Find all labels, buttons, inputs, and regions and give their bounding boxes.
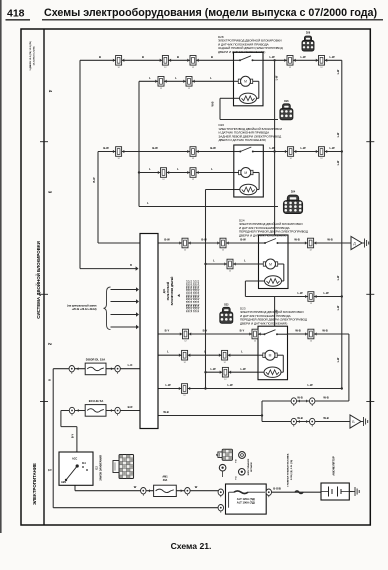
svg-text:B-W: B-W <box>210 146 216 150</box>
svg-text:L-W: L-W <box>269 55 275 59</box>
svg-text:L-W: L-W <box>337 132 340 137</box>
svg-text:АККУМУЛЯТОР: АККУМУЛЯТОР <box>332 456 336 476</box>
svg-text:L-O: L-O <box>128 363 133 367</box>
svg-text:Д41: Д41 <box>163 288 166 293</box>
svg-text:W-B: W-B <box>323 416 328 420</box>
svg-text:W-B: W-B <box>327 238 332 242</box>
svg-text:БЛОКИРОВКИ ДВЕРЕЙ: БЛОКИРОВКИ ДВЕРЕЙ <box>171 277 174 306</box>
svg-text:B-R: B-R <box>128 405 133 409</box>
svg-text:M: M <box>269 354 272 358</box>
svg-text:B-Y: B-Y <box>240 329 245 333</box>
svg-text:І13: І13 <box>96 466 99 470</box>
svg-text:W: W <box>195 485 198 489</box>
svg-text:Схема 21.: Схема 21. <box>171 541 212 551</box>
svg-text:ДВЕРИ И ДАТЧИК ПОЛОЖЕНИЯ): ДВЕРИ И ДАТЧИК ПОЛОЖЕНИЯ) <box>218 50 265 54</box>
svg-text:W-B: W-B <box>295 329 300 333</box>
svg-text:M: M <box>269 262 272 266</box>
svg-text:ALT 100A (7Д): ALT 100A (7Д) <box>237 500 255 504</box>
svg-text:+20-Ы +26-Ы +29-Ы): +20-Ы +26-Ы +29-Ы) <box>72 308 97 311</box>
svg-text:B: B <box>211 55 213 59</box>
svg-text:W-B: W-B <box>163 410 168 414</box>
svg-text:B: B <box>48 379 51 381</box>
svg-text:W-B: W-B <box>323 396 328 400</box>
svg-text:L-W: L-W <box>337 275 340 280</box>
svg-text:L-W: L-W <box>307 383 313 387</box>
svg-text:L-W: L-W <box>269 146 275 150</box>
svg-text:ГЛАВНАЯ ПЛАВКАЯ ВСТАВКА: ГЛАВНАЯ ПЛАВКАЯ ВСТАВКА <box>287 453 290 486</box>
svg-text:40A: 40A <box>163 479 168 482</box>
svg-text:L-W: L-W <box>329 55 335 59</box>
svg-text:B-Y: B-Y <box>165 329 170 333</box>
svg-text:L-W: L-W <box>337 357 340 362</box>
svg-text:3.0W (7Д), 3.0L (7Д): 3.0W (7Д), 3.0L (7Д) <box>291 460 293 481</box>
svg-text:L-W: L-W <box>240 367 246 371</box>
svg-text:B-Y: B-Y <box>72 434 75 439</box>
svg-text:ВСТАВОК: ВСТАВОК <box>250 461 253 472</box>
svg-text:D24: D24 <box>291 191 296 194</box>
svg-text:D23: D23 <box>224 304 229 306</box>
svg-text:L-W: L-W <box>300 55 306 59</box>
svg-text:B-W: B-W <box>240 238 246 242</box>
svg-text:B-W: B-W <box>103 146 109 150</box>
svg-text:ДВЕРИ И ДАТЧИК ПОЛОЖЕНИЯ): ДВЕРИ И ДАТЧИК ПОЛОЖЕНИЯ) <box>240 321 287 325</box>
svg-text:ACC: ACC <box>72 458 77 461</box>
svg-text:D26: D26 <box>284 101 289 103</box>
svg-text:W-B: W-B <box>297 416 302 420</box>
svg-text:B: B <box>142 55 144 59</box>
svg-text:ДВЕРИ И ДАТЧИК ПОЛОЖЕНИЯ): ДВЕРИ И ДАТЧИК ПОЛОЖЕНИЯ) <box>219 138 266 142</box>
svg-text:ДВЕРИ И ДАТЧИК ПОЛОЖЕНИЯ): ДВЕРИ И ДАТЧИК ПОЛОЖЕНИЯ) <box>239 233 286 237</box>
svg-text:Ч ДВЕРИ 10-2 (7В) 12-3 (7В): Ч ДВЕРИ 10-2 (7В) 12-3 (7В) <box>30 41 32 71</box>
svg-text:L-W: L-W <box>297 291 303 295</box>
svg-text:10-3(7В) 12-2(7В) 16-2(7В) 14-: 10-3(7В) 12-2(7В) 16-2(7В) 14-3 <box>197 280 200 313</box>
svg-text:W-B: W-B <box>294 238 299 242</box>
svg-text:14-3 (7В) 16-2 (7В): 14-3 (7В) 16-2 (7В) <box>33 46 36 65</box>
svg-text:418: 418 <box>7 8 25 20</box>
svg-text:ЗАМОК ЗАЖИГАНИЯ: ЗАМОК ЗАЖИГАНИЯ <box>100 455 103 481</box>
svg-text:ЭЛЕКТРОПИТАНИЕ: ЭЛЕКТРОПИТАНИЕ <box>32 463 37 505</box>
svg-text:W-B: W-B <box>212 101 215 106</box>
svg-text:Схемы электрооборудования (мод: Схемы электрооборудования (модели выпуск… <box>44 7 377 19</box>
svg-text:СИСТЕМА ДВОЙНОЙ БЛОКИРОВКИ: СИСТЕМА ДВОЙНОЙ БЛОКИРОВКИ <box>36 241 41 318</box>
svg-text:DOOR DL 15A: DOOR DL 15A <box>86 358 106 362</box>
svg-text:B: B <box>99 55 101 59</box>
svg-text:W-B: W-B <box>297 396 302 400</box>
svg-text:M: M <box>244 171 247 175</box>
svg-text:L-W: L-W <box>300 146 306 150</box>
svg-text:L-W: L-W <box>329 146 335 150</box>
svg-text:IG1: IG1 <box>82 462 87 465</box>
svg-text:D28: D28 <box>306 33 311 35</box>
svg-text:B-W: B-W <box>93 177 96 183</box>
svg-text:ALT 120A (7Д): ALT 120A (7Д) <box>237 497 255 501</box>
svg-text:B-W: B-W <box>152 146 158 150</box>
svg-text:L-W: L-W <box>227 383 233 387</box>
svg-text:M: M <box>244 80 247 84</box>
svg-text:B-W: B-W <box>201 238 207 242</box>
svg-text:AM1: AM1 <box>61 481 67 484</box>
svg-text:B: B <box>177 55 179 59</box>
svg-text:L-W: L-W <box>323 291 329 295</box>
svg-text:ECU-IG 5A: ECU-IG 5A <box>89 399 105 403</box>
svg-text:L-W: L-W <box>210 367 216 371</box>
svg-text:B-O/B: B-O/B <box>273 487 281 491</box>
svg-text:W-B: W-B <box>322 329 327 333</box>
svg-text:B: B <box>130 264 132 267</box>
svg-text:L-W: L-W <box>337 160 340 165</box>
svg-text:БЛОК ПЛАВКИХ: БЛОК ПЛАВКИХ <box>247 458 250 475</box>
svg-text:РЕЛЕ ПОЛНОЙ: РЕЛЕ ПОЛНОЙ <box>167 282 170 301</box>
svg-text:L-W: L-W <box>276 75 279 80</box>
svg-text:B-W: B-W <box>164 238 170 242</box>
svg-text:L-W: L-W <box>165 383 171 387</box>
svg-text:B-Y: B-Y <box>203 329 208 333</box>
svg-text:L-W: L-W <box>337 305 340 310</box>
svg-text:L-W: L-W <box>337 69 340 74</box>
svg-text:W: W <box>134 485 137 489</box>
